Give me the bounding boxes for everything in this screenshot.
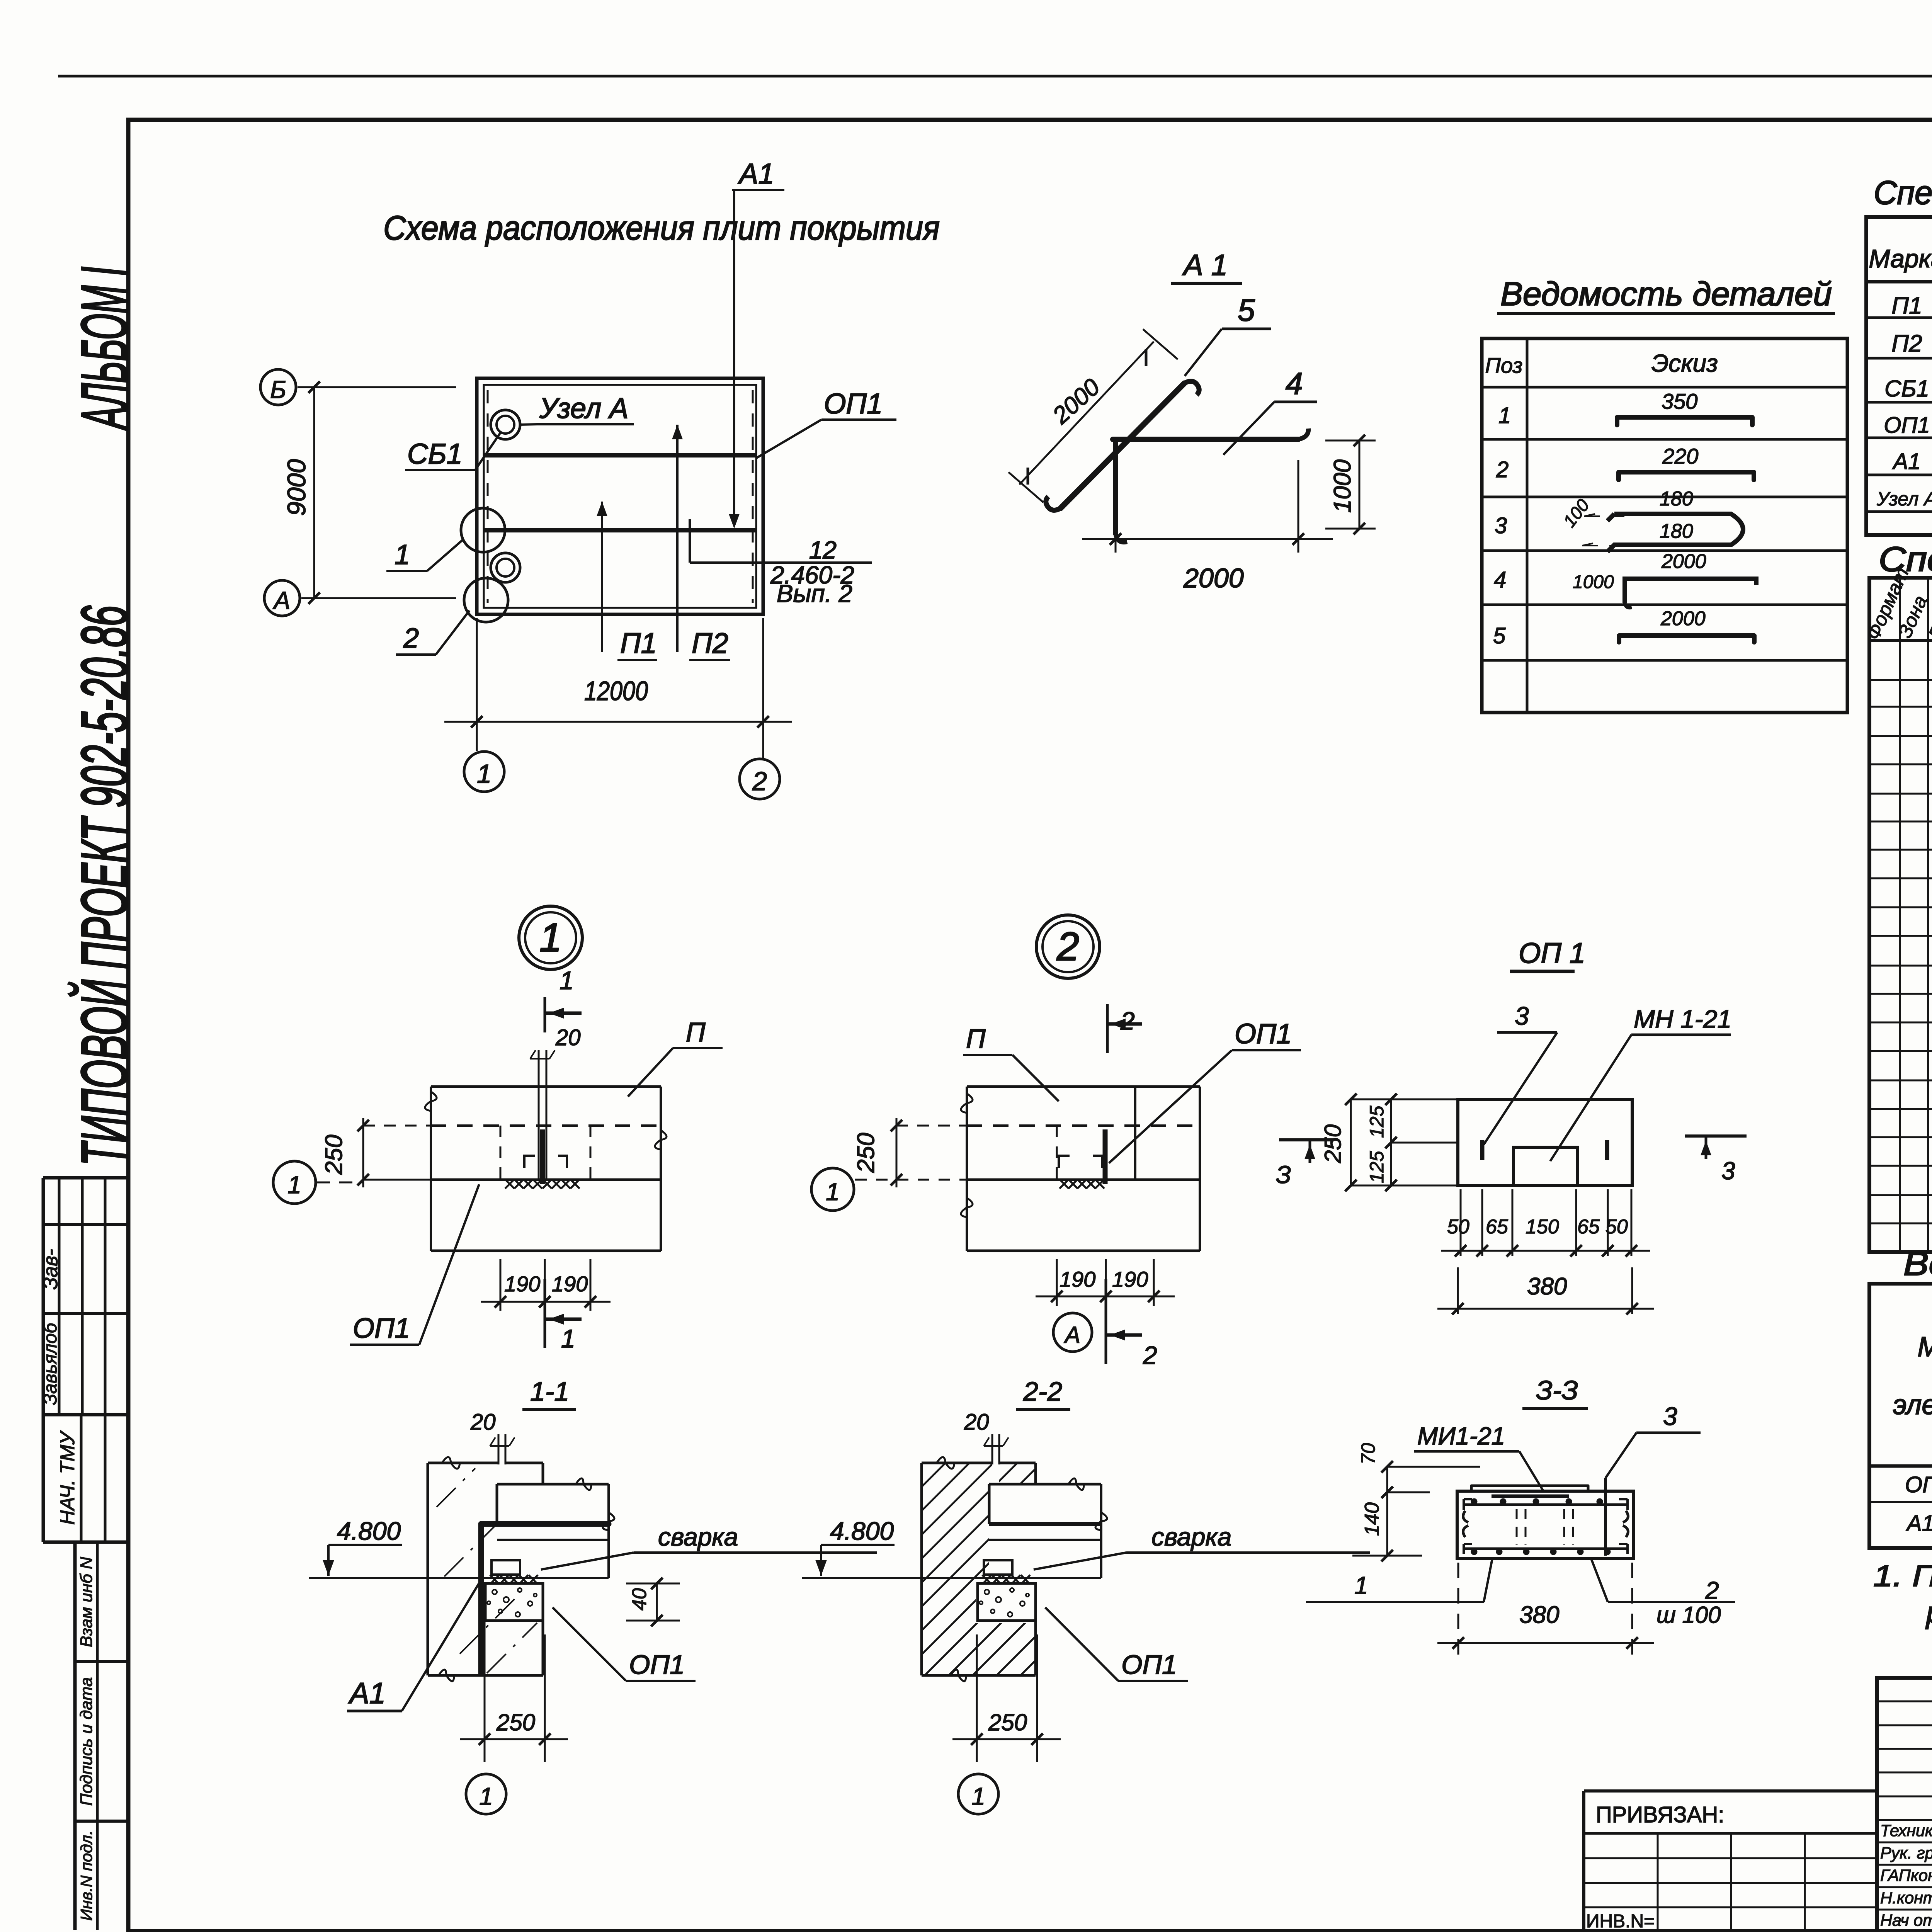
svg-text:40: 40: [628, 1588, 651, 1611]
axis line А: [301, 597, 456, 599]
detail2 support band: [967, 1179, 1200, 1181]
detail2 hidden support edge: [1056, 1126, 1058, 1180]
svg-text:1. Покрытие разработано д: 1. Покрытие разработано для III снеговог…: [1873, 1559, 1932, 1593]
section 1-1 dim 40: [626, 1583, 680, 1585]
svg-text:СБ1: СБ1: [407, 438, 463, 470]
section 3-3 stirrups dashed: [1516, 1509, 1518, 1545]
узел А mark circle bottom: [491, 553, 520, 582]
svg-text:1000: 1000: [1329, 459, 1356, 513]
svg-text:Зав-: Зав-: [39, 1249, 62, 1289]
svg-text:220: 220: [1662, 444, 1698, 468]
svg-text:1: 1: [1498, 403, 1511, 428]
section 2-2 slab bottom line: [989, 1539, 1101, 1541]
plan hidden edge dashed left: [487, 390, 489, 603]
section 3-3 dims 140 70: [1386, 1467, 1388, 1556]
svg-text:Эскиз: Эскиз: [1651, 349, 1718, 377]
svg-text:ПРИВЯЗАН:: ПРИВЯЗАН:: [1596, 1802, 1724, 1827]
svg-text:ОП1: ОП1: [1235, 1019, 1292, 1049]
svg-text:20: 20: [964, 1410, 989, 1435]
svg-text:Поз: Поз: [1485, 353, 1522, 378]
op1 notch: [1514, 1147, 1578, 1185]
section 2-2 wall hatch: [922, 1349, 1036, 1918]
svg-text:20: 20: [470, 1410, 496, 1435]
sidebar upper stamp table: [43, 1178, 128, 1542]
svg-text:П1: П1: [1891, 293, 1922, 319]
section 1-1 slab: [497, 1478, 614, 1578]
detail1 section mark 1 bottom: [544, 1279, 546, 1348]
svg-text:ОП 1: ОП 1: [1519, 937, 1585, 969]
svg-text:1: 1: [539, 915, 562, 960]
section 2-2 weld block: [984, 1560, 1012, 1575]
detail2 anchor corner: [1103, 1129, 1108, 1184]
section 3-3 dim 380: [1458, 1563, 1459, 1662]
svg-text:2: 2: [1705, 1577, 1719, 1604]
svg-text:З-З: З-З: [1536, 1375, 1578, 1405]
svg-text:Нач отд.: Нач отд.: [1880, 1911, 1932, 1930]
svg-text:4: 4: [1494, 567, 1506, 592]
svg-text:1000: 1000: [1573, 572, 1614, 592]
svg-text:380: 380: [1527, 1273, 1567, 1300]
section 1-1 wall: [428, 1457, 543, 1681]
axis circle Б: [260, 369, 296, 405]
svg-text:А: А: [272, 587, 291, 614]
svg-text:50: 50: [1447, 1216, 1469, 1238]
plan hidden edge dashed right: [752, 390, 754, 603]
detail1 hidden support edges: [500, 1126, 502, 1180]
dim 1000 vertical: [1325, 440, 1376, 442]
svg-text:5: 5: [1238, 293, 1255, 327]
svg-text:П: П: [966, 1024, 986, 1054]
section 1-1 circle 1: [466, 1774, 506, 1814]
svg-text:ОП1: ОП1: [1884, 413, 1930, 438]
svg-text:Подпись и дата: Подпись и дата: [77, 1677, 96, 1806]
svg-text:190: 190: [1112, 1267, 1148, 1291]
svg-text:190: 190: [504, 1272, 540, 1296]
plan slab joint line 1: [484, 453, 756, 457]
svg-text:Узел А: Узел А: [539, 392, 628, 424]
section 1-1 dim 250: [484, 1615, 486, 1762]
section 3-3 top rebar: [1464, 1503, 1628, 1506]
top border line: [58, 75, 1932, 78]
detail1 slab plan: [425, 1087, 667, 1184]
grid circle 2: [740, 759, 780, 799]
op1 rebar dash right: [1605, 1140, 1609, 1160]
svg-text:1: 1: [560, 966, 574, 995]
svg-text:Завьялоб: Завьялоб: [40, 1322, 61, 1405]
svg-text:1: 1: [395, 539, 410, 570]
detail circle 2 heading: [1036, 915, 1100, 978]
svg-text:района.: района.: [1925, 1595, 1932, 1629]
detail2 slab plan: [961, 1087, 1200, 1251]
svg-text:65: 65: [1577, 1216, 1600, 1238]
svg-text:МИ1-21: МИ1-21: [1417, 1422, 1505, 1450]
table1 grid: [1866, 217, 1932, 535]
section 2-2 wall: [922, 1457, 1036, 1681]
grid circle 1: [464, 752, 504, 792]
svg-text:ИНВ.N=: ИНВ.N=: [1586, 1911, 1655, 1932]
op1 section mark 3 right: [1685, 1134, 1747, 1138]
anchor bar vertical: [1113, 439, 1118, 533]
svg-text:ОП1: ОП1: [353, 1313, 410, 1344]
svg-text:2: 2: [1143, 1341, 1157, 1369]
op1 dim 50 65 150 65 50: [1460, 1189, 1462, 1256]
svg-text:2: 2: [1056, 924, 1079, 969]
svg-text:З: З: [1276, 1161, 1291, 1189]
op1 dim 250 125 125: [1351, 1099, 1458, 1100]
plan slab outline: [477, 378, 763, 614]
svg-text:НАЧ. ТМУ: НАЧ. ТМУ: [56, 1430, 79, 1525]
section 2-2 circle 1: [958, 1774, 998, 1814]
detail circle 1 heading: [519, 906, 582, 969]
svg-text:ГАПконст.: ГАПконст.: [1880, 1866, 1932, 1885]
detail2 weld strip: [1060, 1179, 1069, 1189]
svg-text:70: 70: [1357, 1443, 1379, 1464]
svg-text:250: 250: [496, 1709, 535, 1735]
svg-text:Спецификация к схеме располож: Спецификация к схеме расположения плит п…: [1874, 174, 1932, 211]
svg-text:П2: П2: [692, 627, 728, 659]
svg-text:Схема расположения плит пок: Схема расположения плит покрытия: [383, 209, 940, 247]
svg-text:250: 250: [321, 1135, 347, 1175]
detail2 section mark 2 bottom: [1105, 1279, 1107, 1364]
svg-text:Н.контр.: Н.контр.: [1880, 1889, 1932, 1907]
svg-text:1: 1: [477, 759, 492, 789]
table3 grid: [1869, 1284, 1932, 1548]
svg-text:1: 1: [561, 1324, 575, 1353]
svg-text:Марка: Марка: [1869, 244, 1932, 273]
anchor bar horizontal: [1113, 437, 1298, 442]
svg-text:250: 250: [988, 1709, 1027, 1735]
section 1-1 anchor A1: [481, 1524, 609, 1673]
svg-text:А: А: [1064, 1322, 1080, 1348]
svg-text:9000: 9000: [282, 459, 311, 516]
svg-text:125: 125: [1366, 1151, 1388, 1183]
svg-text:2000: 2000: [1660, 607, 1706, 630]
svg-text:Ведомость расхода стали н: Ведомость расхода стали на элемент кг: [1903, 1245, 1932, 1282]
узел А mark circle top: [491, 410, 520, 439]
svg-text:МН 1-21: МН 1-21: [1634, 1005, 1731, 1033]
svg-text:5: 5: [1493, 623, 1506, 648]
dim 12000: [476, 618, 478, 751]
svg-text:П: П: [686, 1017, 706, 1047]
svg-text:3: 3: [1515, 1002, 1529, 1030]
svg-text:190: 190: [1060, 1267, 1095, 1291]
svg-text:20: 20: [555, 1025, 581, 1050]
svg-text:ОП1: ОП1: [629, 1650, 685, 1680]
callout circle detail 2: [464, 578, 508, 622]
svg-text:1-1: 1-1: [530, 1376, 569, 1406]
svg-text:2-2: 2-2: [1023, 1376, 1062, 1406]
section 2-2 slab: [989, 1478, 1107, 1578]
section 3-3 left hooks: [1463, 1511, 1468, 1537]
table2 grid: [1869, 578, 1932, 1252]
svg-text:ТИПОВОЙ ПРОЕКТ 902-5-20.86: ТИПОВОЙ ПРОЕКТ 902-5-20.86: [68, 605, 141, 1166]
svg-text:П1: П1: [620, 627, 657, 659]
svg-text:350: 350: [1662, 389, 1697, 413]
svg-text:2: 2: [403, 623, 419, 654]
detail2 pad corners dashed: [1059, 1156, 1102, 1168]
svg-text:АЛЬБОМ I: АЛЬБОМ I: [68, 267, 141, 431]
dim 2000 bottom: [1115, 460, 1117, 553]
section 1-1 weld block: [492, 1560, 520, 1575]
svg-text:1: 1: [479, 1782, 493, 1810]
svg-text:А1: А1: [348, 1677, 386, 1710]
svg-text:элемента: элемента: [1893, 1389, 1932, 1420]
svg-text:3: 3: [1495, 513, 1507, 538]
axis line Б: [298, 386, 456, 388]
svg-text:ОП1: ОП1: [1905, 1472, 1932, 1497]
svg-text:Узел А: Узел А: [1876, 488, 1932, 510]
svg-text:Марка: Марка: [1918, 1332, 1932, 1362]
svg-text:А1: А1: [1906, 1511, 1932, 1536]
svg-text:180: 180: [1660, 520, 1693, 543]
svg-text:ОП1: ОП1: [1121, 1650, 1177, 1680]
svg-text:125: 125: [1366, 1105, 1388, 1138]
vedomost table grid: [1482, 338, 1847, 713]
svg-text:сварка: сварка: [658, 1522, 738, 1551]
dim 9000 vertical: [313, 387, 315, 598]
op1 section mark 3 left: [1279, 1138, 1334, 1141]
svg-text:380: 380: [1519, 1602, 1559, 1628]
svg-text:А1: А1: [738, 158, 774, 190]
svg-text:3: 3: [1721, 1157, 1735, 1185]
svg-text:2000: 2000: [1661, 550, 1706, 573]
sidebar lower stamp table: [75, 1542, 128, 1930]
svg-text:Вып. 2: Вып. 2: [777, 580, 852, 607]
svg-text:12: 12: [809, 536, 837, 564]
section 1-1 slab bottom line: [497, 1539, 609, 1541]
dim 2000 diagonal: [1019, 342, 1154, 485]
anchor bar diagonal: [1061, 383, 1184, 508]
svg-text:Ведомость деталей: Ведомость деталей: [1500, 276, 1832, 313]
svg-text:2000: 2000: [1183, 563, 1244, 593]
detail2 circle А bottom: [1053, 1313, 1092, 1352]
svg-text:2: 2: [752, 767, 767, 796]
svg-text:250: 250: [1320, 1124, 1346, 1163]
svg-text:4.800: 4.800: [337, 1517, 401, 1545]
detail1 circle 1 left: [273, 1161, 316, 1204]
svg-text:сварка: сварка: [1151, 1522, 1231, 1551]
svg-text:150: 150: [1526, 1216, 1559, 1238]
svg-text:1: 1: [971, 1782, 985, 1810]
svg-text:П2: П2: [1891, 330, 1922, 357]
svg-text:140: 140: [1361, 1502, 1383, 1536]
detail2 circle 1 left: [811, 1168, 854, 1211]
svg-text:3: 3: [1663, 1402, 1677, 1430]
svg-text:ш 100: ш 100: [1656, 1602, 1721, 1628]
section 2-2 pad stipple: [978, 1583, 1036, 1621]
svg-text:180: 180: [1660, 488, 1693, 510]
svg-text:2: 2: [1496, 457, 1509, 482]
section 3-3 beam outline: [1457, 1491, 1633, 1559]
svg-text:50: 50: [1605, 1216, 1628, 1238]
svg-text:Техник: Техник: [1880, 1821, 1932, 1840]
op1 dim 380: [1457, 1267, 1459, 1314]
detail1 support band: [431, 1179, 661, 1181]
op1 rebar dash left: [1480, 1140, 1485, 1160]
detail2 dim 190 190: [1056, 1259, 1058, 1306]
section 3-3 right hooks: [1623, 1511, 1628, 1537]
privyazan block: [1584, 1791, 1877, 1932]
svg-text:1: 1: [287, 1171, 301, 1199]
detail1 weld strip: [505, 1179, 514, 1189]
section 1-1 wall hatch: [437, 1468, 537, 1673]
section 3-3 plate on top: [1471, 1486, 1588, 1491]
svg-text:250: 250: [853, 1133, 879, 1173]
section 1-1 ref line 4800: [309, 1577, 609, 1579]
svg-text:Инв.N подл.: Инв.N подл.: [77, 1830, 95, 1921]
detail1 dim 190 190: [500, 1259, 502, 1311]
plan slab joint line 2: [484, 528, 756, 532]
svg-text:ОП1: ОП1: [824, 388, 883, 420]
section 2-2 dim 250: [976, 1634, 978, 1762]
svg-text:СБ1: СБ1: [1884, 376, 1929, 401]
callout circle detail 1: [461, 508, 505, 552]
svg-text:1: 1: [1354, 1571, 1368, 1599]
op1 outline: [1458, 1099, 1632, 1185]
title block main frame: [1877, 1678, 1932, 1932]
svg-text:190: 190: [552, 1272, 588, 1296]
svg-text:4.800: 4.800: [830, 1517, 894, 1545]
detail1 pad corners dashed: [524, 1156, 567, 1168]
svg-text:4: 4: [1286, 366, 1303, 401]
svg-text:А1: А1: [1892, 449, 1921, 474]
section 3-3 bottom rebar: [1464, 1548, 1628, 1550]
svg-text:Взам инб N: Взам инб N: [77, 1557, 96, 1647]
svg-text:12000: 12000: [584, 676, 648, 706]
section 3-3 rebar 3 vertical: [1604, 1478, 1607, 1556]
section 1-1 pad stipple: [485, 1583, 543, 1621]
svg-text:65: 65: [1486, 1216, 1509, 1238]
svg-text:Б: Б: [270, 376, 286, 403]
svg-text:А 1: А 1: [1182, 249, 1228, 282]
svg-text:1: 1: [826, 1178, 840, 1206]
section 2-2 ref line 4800: [802, 1577, 1101, 1579]
svg-text:Рук. гр.: Рук. гр.: [1880, 1844, 1932, 1862]
axis circle А: [264, 580, 300, 616]
